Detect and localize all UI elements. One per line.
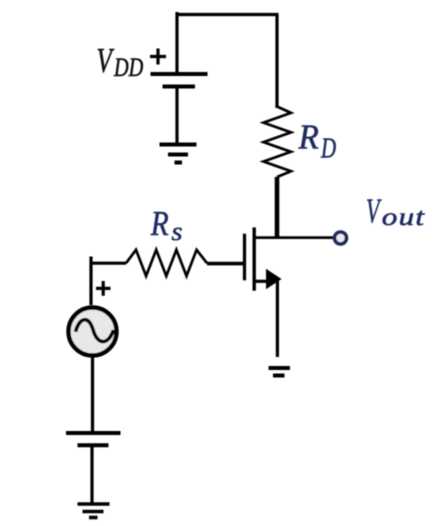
svg-text:R: R	[298, 119, 319, 157]
wire VDD battery to ground	[175, 87, 178, 145]
battery VDD short plate	[163, 85, 196, 89]
battery (bottom) short plate	[78, 443, 109, 447]
wire RS left vertical (source top)	[89, 257, 92, 306]
wire RS to gate	[207, 262, 243, 266]
wire RD to drain node	[275, 177, 280, 238]
AC source Vin circle	[69, 308, 117, 356]
wire source down	[276, 280, 279, 358]
wire top-right vertical (rail to RD)	[275, 15, 278, 109]
wire input node to RS	[90, 262, 127, 265]
svg-text:DD: DD	[113, 54, 143, 83]
ground (bottom-left)	[78, 504, 110, 518]
label RD	[298, 119, 337, 164]
svg-text:R: R	[150, 204, 169, 243]
plus sign input	[96, 281, 111, 296]
wire top rail horizontal	[176, 13, 279, 16]
resistor RS zigzag	[126, 250, 207, 276]
wire top-left vertical (VDD+ to top rail)	[175, 12, 178, 74]
node Vout terminal circle	[335, 232, 347, 244]
ground (below VDD battery)	[160, 145, 197, 163]
transistor M1 gate bar	[243, 234, 246, 281]
label Vout	[366, 193, 425, 232]
svg-text:s: s	[171, 217, 182, 246]
transistor M1 channel bar	[252, 227, 255, 290]
battery (bottom) long plate	[66, 431, 121, 435]
transistor M1 source lead	[256, 280, 270, 283]
label RS	[150, 204, 183, 246]
wire battery to ground	[90, 445, 93, 503]
AC source sine wave	[76, 320, 114, 342]
resistor RD zigzag	[264, 107, 292, 178]
wire drain horizontal to output	[254, 236, 334, 239]
battery VDD long plate	[151, 72, 208, 76]
wire AC source to battery	[91, 355, 94, 432]
ground (at source)	[269, 368, 291, 376]
svg-text:out: out	[382, 204, 426, 231]
plus sign VDD	[150, 49, 166, 65]
svg-text:D: D	[320, 132, 336, 164]
svg-text:V: V	[366, 193, 382, 231]
label VDD	[97, 41, 144, 83]
transistor M1 source arrow	[266, 269, 282, 289]
